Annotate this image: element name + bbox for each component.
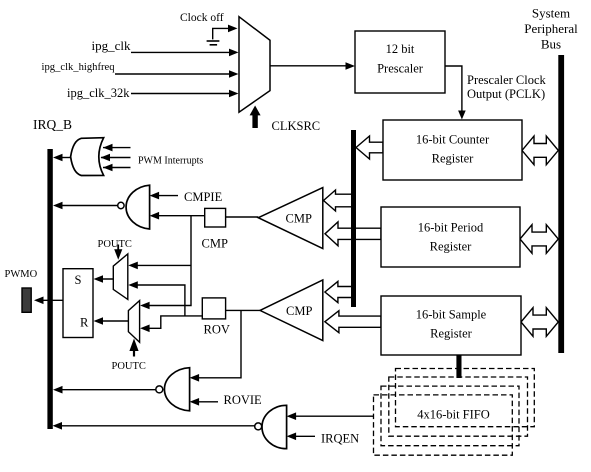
arrowhead PCLK into counter xyxy=(458,111,466,120)
POUTC bottom select arrow xyxy=(133,350,135,357)
svg-text:Output (PCLK): Output (PCLK) xyxy=(467,87,545,101)
svg-text:PWMO: PWMO xyxy=(5,269,38,280)
4x16-bit FIFO dashed box 2 xyxy=(389,377,528,436)
svg-text:R: R xyxy=(80,316,89,330)
POUTC top select arrow xyxy=(117,245,119,251)
svg-text:POUTC: POUTC xyxy=(112,361,146,372)
svg-text:CMP: CMP xyxy=(286,304,312,318)
wire latch to PWMO pin xyxy=(37,299,63,301)
svg-text:CMPIE: CMPIE xyxy=(184,190,223,204)
svg-text:16-bit Period: 16-bit Period xyxy=(418,221,484,235)
wire mux1 output to S xyxy=(97,278,113,280)
svg-text:ipg_clk_32k: ipg_clk_32k xyxy=(67,86,130,100)
arrowhead ipg_clk_32k into mux xyxy=(229,90,239,98)
arrowhead mux2 output to R xyxy=(94,317,104,325)
wire CMPIE label input xyxy=(153,195,178,197)
svg-text:Register: Register xyxy=(430,240,472,254)
arrowhead mux1 input1 xyxy=(128,262,138,270)
arrowhead OR input 1 xyxy=(103,144,113,152)
12 bit Prescaler box xyxy=(355,31,445,93)
double arrow period to peripheral bus xyxy=(520,225,558,254)
wire compare branch down xyxy=(144,216,191,306)
svg-text:ipg_clk: ipg_clk xyxy=(92,38,131,53)
ground xyxy=(207,40,220,42)
arrowhead ipg_clk into mux xyxy=(229,49,239,57)
16-bit Period Register box xyxy=(381,207,520,267)
wire ROV output up to mux1 input2 xyxy=(132,285,185,316)
system peripheral bus bar xyxy=(558,55,564,353)
hollow arrow period register to CMP1 xyxy=(325,222,381,246)
wire mux output to prescaler xyxy=(270,65,350,67)
16-bit Sample Register box xyxy=(381,296,521,355)
svg-text:4x16-bit FIFO: 4x16-bit FIFO xyxy=(417,408,490,422)
arrowhead NAND2 output xyxy=(53,386,63,394)
svg-text:CLKSRC: CLKSRC xyxy=(272,119,321,133)
OR gate PWM interrupts xyxy=(71,138,104,176)
arrowhead OR input 3 xyxy=(103,164,113,172)
arrowhead ipg_clk_highfreq into mux xyxy=(229,70,239,78)
wire clock off xyxy=(213,28,233,39)
SR latch box xyxy=(63,269,93,338)
wire mux2 output to R xyxy=(97,320,128,322)
CMP small box xyxy=(205,208,226,227)
arrowhead mux2 input1 xyxy=(140,302,150,310)
wire NAND1 output to IRQ_B bar xyxy=(56,205,118,207)
internal bus bar xyxy=(351,130,356,307)
PWMO pin xyxy=(22,288,31,312)
NAND2 ROVIE gate xyxy=(164,368,189,411)
wire NAND2 ROVIE output to IRQ_B bar xyxy=(56,389,156,391)
svg-text:Peripheral: Peripheral xyxy=(524,21,578,36)
svg-text:Register: Register xyxy=(430,327,472,341)
wire ROVIE input xyxy=(193,401,218,403)
wire CMP box to NAND1 input xyxy=(153,215,205,217)
svg-text:16-bit Counter: 16-bit Counter xyxy=(416,133,490,147)
hollow arrow counter to internal bus xyxy=(356,136,383,159)
arrowhead mux1 input2 xyxy=(128,281,138,289)
arrowhead NAND3 output xyxy=(53,422,63,430)
CMP2 comparator triangle xyxy=(260,280,323,341)
mux2 POUTC xyxy=(128,301,139,343)
arrowhead clock off into mux xyxy=(228,25,238,33)
svg-text:12 bit: 12 bit xyxy=(386,42,415,56)
arrowhead mux1 output to S xyxy=(94,275,104,283)
wire prescaler output PCLK xyxy=(445,66,462,115)
svg-text:ipg_clk_highfreq: ipg_clk_highfreq xyxy=(42,62,116,73)
arrowhead ROVIE input xyxy=(190,398,200,406)
wire ipg_clk_32k xyxy=(131,93,234,95)
double arrow counter to peripheral bus xyxy=(522,136,558,165)
svg-text:CMP: CMP xyxy=(202,237,228,251)
wire IRQEN input xyxy=(290,435,315,437)
CMP1 comparator triangle xyxy=(258,188,323,249)
svg-text:Clock off: Clock off xyxy=(180,12,224,24)
arrowhead ROV to NAND2 xyxy=(190,374,200,382)
hollow arrow internal bus to CMP1 xyxy=(324,190,353,211)
svg-text:IRQEN: IRQEN xyxy=(321,432,359,446)
svg-text:System: System xyxy=(532,6,570,21)
wire ROV branch down to NAND2 xyxy=(194,310,241,377)
arrowhead IRQEN input xyxy=(287,433,297,441)
arrowhead CMPIE input xyxy=(150,192,160,200)
svg-text:POUTC: POUTC xyxy=(98,239,132,250)
wire ipg_clk_highfreq xyxy=(115,73,234,75)
svg-text:S: S xyxy=(75,273,82,287)
svg-text:16-bit Sample: 16-bit Sample xyxy=(416,308,487,322)
arrowhead NAND1 output xyxy=(53,202,63,210)
arrowhead mux2 input2 xyxy=(140,325,150,333)
svg-text:Bus: Bus xyxy=(541,37,561,52)
NAND1 CMPIE gate xyxy=(126,185,150,229)
wire ROV output left xyxy=(144,316,202,328)
wire OR gate output to IRQ_B bar xyxy=(56,157,71,159)
arrowhead FIFO to NAND3 xyxy=(287,412,297,420)
arrowhead CMP into NAND1 xyxy=(150,212,160,220)
hollow arrow sample register to CMP2 xyxy=(325,311,381,333)
wire ipg_clk xyxy=(131,51,234,53)
svg-text:ROV: ROV xyxy=(204,323,230,337)
4x16-bit FIFO dashed box 3 xyxy=(381,386,519,446)
IRQ_B bus bar xyxy=(47,149,52,429)
svg-text:Prescaler Clock: Prescaler Clock xyxy=(467,73,547,87)
double arrow sample to peripheral bus xyxy=(521,308,558,337)
arrowhead into prescaler xyxy=(346,62,356,70)
thick link sample register to FIFO xyxy=(456,355,461,378)
wire CMP1 apex to CMP box xyxy=(226,216,259,218)
wire NAND3 IRQEN output to IRQ_B bar xyxy=(56,425,255,427)
wire OR gate inputs PWM Interrupts xyxy=(103,147,131,149)
wire FIFO to NAND3 input xyxy=(290,415,374,417)
arrowhead OR output xyxy=(53,154,63,162)
CLKSRC mux xyxy=(239,17,270,113)
16-bit Counter Register box xyxy=(383,120,522,180)
mux1 POUTC xyxy=(113,254,128,300)
svg-text:PWM Interrupts: PWM Interrupts xyxy=(138,156,203,167)
4x16-bit FIFO dashed box 4 xyxy=(374,395,513,455)
arrowhead OR input 2 xyxy=(101,154,111,162)
CLKSRC thick select arrow xyxy=(252,115,257,129)
wire CMP2 apex to ROV box xyxy=(226,309,260,311)
arrowhead latch to PWMO xyxy=(34,297,44,305)
wire branch to mux1 input1 xyxy=(132,264,191,266)
ROV small box xyxy=(202,298,225,319)
svg-text:CMP: CMP xyxy=(286,212,312,226)
svg-text:Register: Register xyxy=(432,152,474,166)
hollow arrow internal bus to CMP2 xyxy=(325,281,353,302)
4x16-bit FIFO dashed box 1 xyxy=(396,369,535,427)
svg-text:IRQ_B: IRQ_B xyxy=(33,117,72,132)
svg-text:Prescaler: Prescaler xyxy=(377,62,424,76)
svg-text:ROVIE: ROVIE xyxy=(224,393,263,407)
NAND3 IRQEN gate xyxy=(262,405,287,448)
